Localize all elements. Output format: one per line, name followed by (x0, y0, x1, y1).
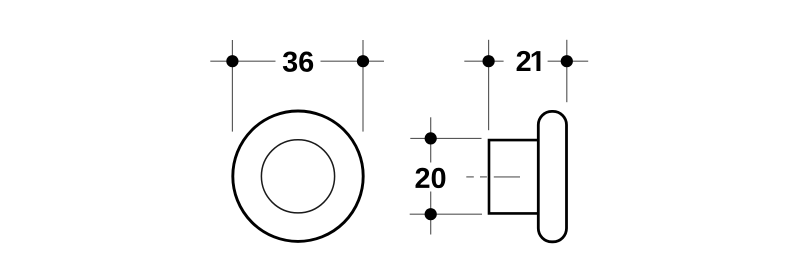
knob inner circle (front view) (261, 140, 334, 213)
dim 21 dot right (561, 55, 573, 67)
centerline dash 1 (466, 176, 474, 178)
centerline dash 3 (494, 176, 520, 178)
centerline dash 2 (480, 176, 487, 178)
knob outer circle (front view) (233, 111, 363, 241)
dim 21 extension line left (488, 40, 490, 130)
dim 36 dimension line left segment (210, 60, 275, 62)
dim 21 dimension line right segment (548, 60, 589, 62)
dim 21 dot left (483, 55, 495, 67)
dim 20 extension line bottom (410, 213, 482, 215)
dim 20 label "20" (416, 168, 446, 188)
dim 20 dimension line bottom segment (430, 192, 432, 235)
dim 36 label "36" (283, 51, 313, 71)
dim 20 dot bottom (425, 208, 437, 220)
dim 36 dot left (226, 55, 238, 67)
dim 20 dimension line top segment (430, 117, 432, 162)
dim 36 dimension line right segment (321, 60, 385, 62)
knob stem (side view) (489, 140, 546, 213)
dim 21 label "21" (517, 51, 541, 71)
dim 21 extension line right (566, 40, 568, 102)
dim 36 extension line right (362, 40, 364, 132)
dim 21 dimension line left segment (464, 60, 503, 62)
dim 36 dot right (357, 55, 369, 67)
dim 20 dot top (425, 132, 437, 144)
knob cap (side view) (538, 111, 566, 241)
dim 20 extension line top (410, 137, 481, 139)
dim 36 extension line left (231, 40, 233, 132)
